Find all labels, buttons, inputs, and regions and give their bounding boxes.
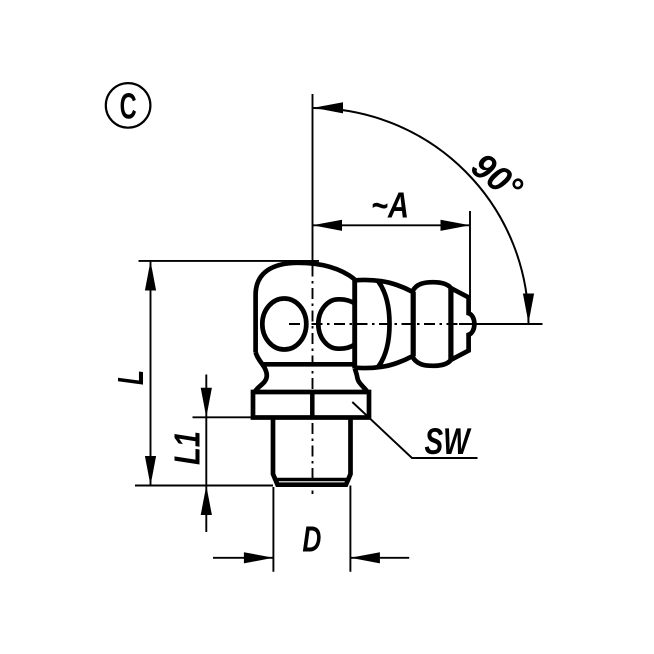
arc arrowhead bottom <box>523 294 534 324</box>
threaded stud outline <box>273 418 351 485</box>
svg-text:L1: L1 <box>167 431 208 465</box>
dimension line D right part <box>350 557 409 559</box>
dimension line ~A <box>313 224 471 226</box>
extension line for ~A at nipple tip <box>469 211 471 297</box>
svg-text:L: L <box>110 370 151 385</box>
left drive circle <box>262 299 306 350</box>
90 degree dimension vertical line <box>312 94 314 263</box>
nipple tip back edge <box>448 288 453 359</box>
right drive circle (clipped by junction) <box>318 299 355 348</box>
body ball bottom line <box>262 362 355 367</box>
junction line between ball and nipple head <box>352 280 357 369</box>
thread runout line <box>277 478 347 481</box>
90 degree dimension arc <box>314 108 529 324</box>
nipple hex facet curve <box>378 281 390 367</box>
dimension line L1 <box>205 375 207 533</box>
L top extension line <box>139 260 320 262</box>
dimension line D left part <box>213 557 273 559</box>
SW leader line <box>352 402 477 458</box>
neck right edge <box>355 369 368 393</box>
nipple head outline <box>355 280 475 368</box>
arc arrowhead top <box>314 102 344 113</box>
L bottom extension line (shared with L1) <box>135 485 273 487</box>
centerline extension to arc end <box>459 323 543 325</box>
dimension line L <box>150 261 152 486</box>
grease nipple body outline (ball elbow with neck) <box>255 263 355 392</box>
D extension line left <box>272 487 274 572</box>
svg-text:~A: ~A <box>371 185 409 226</box>
vertical centerline of stud axis <box>312 264 314 495</box>
svg-text:SW: SW <box>425 421 472 462</box>
ball-end left rim line <box>411 292 416 356</box>
D extension line right <box>349 486 351 572</box>
svg-text:C: C <box>120 86 137 127</box>
svg-text:D: D <box>302 519 321 560</box>
L1 top extension line <box>193 416 274 418</box>
hex flange <box>253 392 369 418</box>
horizontal centerline of nipple axis <box>289 323 474 325</box>
hex flange facet line <box>310 392 315 418</box>
view label circle C <box>106 83 151 128</box>
